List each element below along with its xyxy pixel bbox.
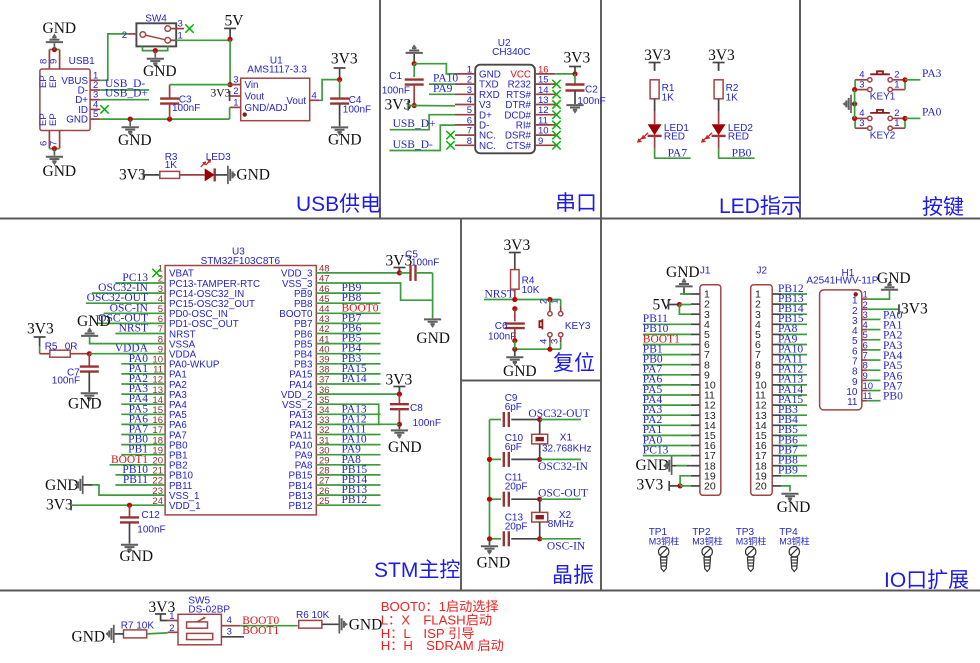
svg-text:OSC32-OUT: OSC32-OUT	[528, 408, 589, 420]
svg-text:GND: GND	[143, 63, 177, 80]
svg-text:C12: C12	[141, 510, 160, 521]
svg-text:GND: GND	[777, 499, 811, 516]
svg-text:GND: GND	[477, 555, 511, 572]
svg-text:RED: RED	[728, 132, 749, 143]
svg-text:按键: 按键	[922, 196, 964, 219]
svg-text:Vin: Vin	[245, 80, 259, 91]
svg-text:PA14: PA14	[342, 373, 367, 385]
svg-text:GND: GND	[68, 396, 102, 413]
svg-text:32.768KHz: 32.768KHz	[542, 444, 591, 455]
svg-text:20pF: 20pF	[505, 482, 528, 493]
svg-text:2: 2	[233, 86, 238, 97]
svg-text:3V3: 3V3	[46, 497, 73, 514]
svg-text:KEY3: KEY3	[565, 321, 591, 332]
svg-text:1: 1	[549, 299, 560, 304]
svg-text:8: 8	[467, 136, 472, 147]
svg-text:PC13: PC13	[643, 444, 669, 456]
svg-text:GND: GND	[43, 20, 77, 37]
svg-text:GND: GND	[388, 439, 422, 456]
svg-text:100nF: 100nF	[52, 376, 80, 387]
svg-text:3V3: 3V3	[644, 47, 671, 64]
svg-text:M3铜柱: M3铜柱	[736, 536, 767, 547]
svg-text:100nF: 100nF	[343, 105, 371, 116]
svg-text:GND/ADJ: GND/ADJ	[245, 103, 288, 114]
svg-text:AMS1117-3.3: AMS1117-3.3	[247, 65, 307, 76]
svg-text:GND: GND	[77, 313, 111, 330]
svg-text:GND: GND	[877, 270, 911, 287]
svg-text:M3铜柱: M3铜柱	[649, 536, 680, 547]
svg-text:GND: GND	[328, 132, 362, 149]
svg-text:3V3: 3V3	[504, 237, 531, 254]
svg-text:GND: GND	[349, 617, 383, 634]
svg-text:1: 1	[233, 97, 238, 108]
svg-text:M3铜柱: M3铜柱	[779, 536, 810, 547]
svg-text:GND: GND	[43, 163, 77, 180]
svg-text:串口: 串口	[555, 192, 597, 215]
svg-text:3V3: 3V3	[211, 88, 231, 100]
svg-text:100nF: 100nF	[488, 332, 516, 343]
svg-text:USB_D+: USB_D+	[105, 88, 148, 100]
svg-text:3V3: 3V3	[385, 97, 412, 114]
svg-text:1: 1	[894, 79, 899, 90]
svg-text:PB12: PB12	[342, 494, 368, 506]
svg-text:3V3: 3V3	[331, 51, 358, 68]
svg-text:RED: RED	[664, 132, 685, 143]
svg-text:3V3: 3V3	[708, 47, 735, 64]
svg-text:LED3: LED3	[206, 152, 231, 163]
svg-text:5: 5	[93, 109, 98, 120]
svg-text:PB0: PB0	[732, 148, 752, 160]
svg-text:GND: GND	[416, 330, 450, 347]
svg-text:H：H SDRAM 启动: H：H SDRAM 启动	[381, 638, 504, 653]
svg-text:8MHz: 8MHz	[548, 519, 574, 530]
svg-text:LED指示: LED指示	[719, 195, 802, 218]
svg-text:3V3: 3V3	[27, 321, 54, 338]
svg-text:USB_D-: USB_D-	[393, 139, 433, 151]
svg-text:KEY2: KEY2	[870, 130, 896, 141]
svg-text:C8: C8	[410, 403, 423, 414]
svg-text:NC.: NC.	[479, 141, 496, 152]
svg-text:1K: 1K	[165, 160, 178, 171]
svg-text:1: 1	[894, 118, 899, 129]
svg-text:PA0: PA0	[922, 106, 942, 118]
svg-text:PA7: PA7	[668, 148, 688, 160]
svg-text:7: 7	[49, 141, 60, 146]
svg-text:2: 2	[122, 30, 127, 41]
svg-text:1K: 1K	[726, 93, 739, 104]
svg-text:GND: GND	[120, 548, 154, 565]
svg-text:GND: GND	[45, 477, 79, 494]
svg-text:100nF: 100nF	[137, 525, 165, 536]
svg-text:100nF: 100nF	[577, 96, 605, 107]
svg-text:OSC32-IN: OSC32-IN	[538, 461, 589, 473]
svg-text:2: 2	[169, 623, 174, 634]
svg-text:CTS#: CTS#	[506, 141, 532, 152]
svg-text:PB0: PB0	[883, 391, 903, 403]
svg-text:IO口扩展: IO口扩展	[884, 569, 969, 592]
svg-text:3: 3	[227, 626, 232, 637]
svg-text:X1: X1	[560, 433, 573, 444]
svg-text:10K: 10K	[522, 285, 540, 296]
svg-text:6pF: 6pF	[505, 402, 522, 413]
svg-text:4: 4	[539, 339, 550, 344]
svg-text:2: 2	[539, 299, 550, 304]
svg-text:GND: GND	[118, 132, 152, 149]
svg-text:NRST: NRST	[119, 323, 148, 335]
svg-text:100nF: 100nF	[413, 418, 441, 429]
svg-text:R5: R5	[45, 342, 58, 353]
svg-text:J2: J2	[757, 266, 768, 277]
svg-text:KEY1: KEY1	[870, 92, 896, 103]
svg-text:PB12: PB12	[289, 501, 313, 512]
svg-text:C1: C1	[389, 71, 402, 82]
svg-text:晶振: 晶振	[552, 564, 594, 587]
svg-text:EP: EP	[48, 75, 59, 88]
svg-text:GND: GND	[236, 166, 270, 183]
svg-text:CH340C: CH340C	[492, 47, 530, 58]
svg-text:9: 9	[49, 59, 60, 64]
svg-text:20: 20	[755, 481, 767, 493]
svg-text:复位: 复位	[553, 352, 595, 375]
svg-text:J1: J1	[700, 266, 711, 277]
svg-text:100nF: 100nF	[172, 103, 200, 114]
svg-text:3V3: 3V3	[901, 300, 928, 317]
svg-text:GND: GND	[666, 264, 700, 281]
svg-text:C6: C6	[495, 321, 508, 332]
svg-text:PB11: PB11	[123, 474, 148, 486]
svg-text:3: 3	[233, 75, 238, 86]
svg-text:C2: C2	[585, 85, 598, 96]
svg-text:1: 1	[178, 30, 183, 41]
svg-text:9: 9	[538, 136, 543, 147]
svg-text:Vout: Vout	[286, 96, 306, 107]
svg-text:20: 20	[704, 481, 716, 493]
svg-text:OSC-IN: OSC-IN	[547, 541, 586, 553]
svg-text:GND: GND	[72, 629, 106, 646]
svg-text:STM主控: STM主控	[374, 559, 460, 582]
svg-text:20pF: 20pF	[505, 521, 528, 532]
svg-text:11: 11	[847, 397, 858, 408]
svg-text:3V3: 3V3	[119, 167, 146, 184]
svg-text:EP: EP	[48, 113, 59, 126]
svg-text:0R: 0R	[65, 342, 78, 353]
svg-text:SW4: SW4	[145, 14, 167, 25]
svg-text:OSC-OUT: OSC-OUT	[538, 488, 588, 500]
svg-text:3: 3	[859, 79, 864, 90]
svg-text:4: 4	[312, 91, 317, 102]
svg-text:M3铜柱: M3铜柱	[692, 536, 723, 547]
svg-text:STM32F103C8T6: STM32F103C8T6	[201, 256, 281, 267]
svg-text:USB_D+: USB_D+	[393, 118, 436, 130]
svg-text:5V: 5V	[225, 13, 245, 30]
svg-text:1K: 1K	[662, 93, 675, 104]
svg-text:GND: GND	[66, 115, 88, 126]
svg-text:USB供电: USB供电	[296, 193, 381, 216]
svg-text:GND: GND	[503, 363, 537, 380]
svg-text:USB1: USB1	[69, 56, 96, 67]
svg-text:3: 3	[178, 19, 183, 30]
svg-text:PA9: PA9	[433, 83, 453, 95]
svg-text:Vout: Vout	[245, 92, 265, 103]
svg-text:BOOT1: BOOT1	[242, 625, 279, 637]
svg-text:A2541HWV-11P: A2541HWV-11P	[806, 276, 878, 287]
svg-text:PA3: PA3	[922, 68, 942, 80]
svg-text:R6 10K: R6 10K	[296, 610, 330, 621]
svg-text:4: 4	[227, 615, 232, 626]
svg-text:VDD_1: VDD_1	[169, 501, 201, 512]
svg-text:3V3: 3V3	[564, 50, 591, 67]
svg-text:3: 3	[549, 339, 560, 344]
svg-text:3: 3	[859, 118, 864, 129]
svg-text:6pF: 6pF	[505, 442, 522, 453]
svg-text:100nF: 100nF	[382, 86, 410, 97]
svg-text:3V3: 3V3	[637, 477, 664, 494]
svg-text:100nF: 100nF	[411, 258, 439, 269]
svg-text:PB9: PB9	[778, 465, 798, 477]
